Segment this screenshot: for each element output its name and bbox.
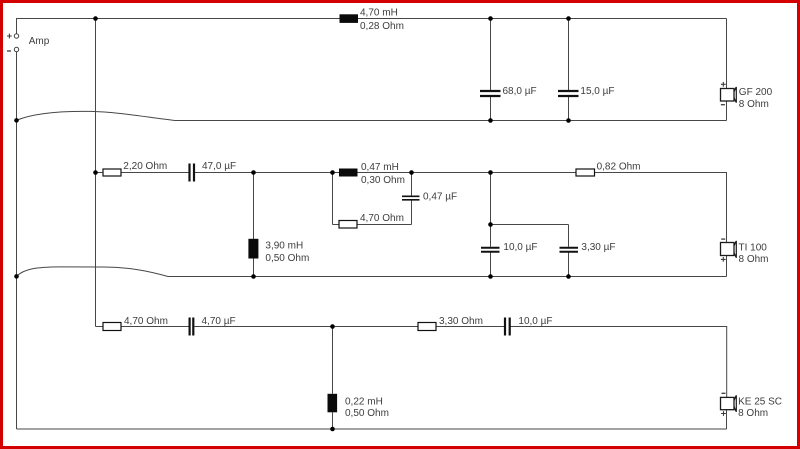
junction node top rail / bus	[93, 16, 98, 21]
svg-text:0,82 Ohm: 0,82 Ohm	[597, 162, 641, 173]
wire mid shunt caps vertical x=490 lower	[490, 253, 492, 277]
wire mid shunt caps vertical x=490 upper	[490, 173, 492, 247]
inductor 3,90 mH 0,50 Ohm (vertical)	[248, 239, 258, 259]
junction node shunt caps tie	[488, 222, 493, 227]
svg-text:4,70 mH: 4,70 mH	[360, 8, 398, 19]
capacitor 3,30 uF plates (mid shunt)	[560, 248, 579, 252]
svg-text:0,22 mH: 0,22 mH	[345, 396, 383, 407]
amp minus terminal	[14, 47, 18, 51]
minus sign at KE 25 SC	[722, 392, 726, 394]
svg-text:68,0 µF: 68,0 µF	[503, 86, 537, 97]
junction node woofer return / 15uF	[566, 118, 571, 123]
wire tweeter section rail	[96, 326, 189, 328]
wire tweeter rail after second cap	[511, 327, 727, 430]
wire mid return rail with hand-drawn bump	[17, 267, 727, 277]
capacitor 4,70 uF bars	[190, 318, 194, 336]
speaker GF 200	[721, 87, 737, 103]
minus sign at GF 200	[721, 104, 725, 106]
svg-text:0,47 µF: 0,47 µF	[423, 191, 457, 202]
wire mid rail segment 2	[194, 173, 727, 277]
wire mid shunt inductor branch x=253	[253, 173, 255, 277]
junction node woofer return / 68uF	[488, 118, 493, 123]
wire mid shunt cap2 vertical upper	[568, 225, 570, 247]
svg-text:3,30 Ohm: 3,30 Ohm	[439, 316, 483, 327]
junction node bottom rail / shunt inductor	[330, 427, 335, 432]
svg-text:2,20 Ohm: 2,20 Ohm	[123, 161, 167, 172]
wire top rail (Amp+ to woofer)	[17, 19, 727, 35]
wire main positive bus vertical x=95	[95, 19, 97, 327]
wire woofer shunt vertical x=490 upper	[490, 19, 492, 91]
junction node mid rail / shunt caps	[488, 170, 493, 175]
wire woofer return rail with hand-drawn bump	[17, 111, 727, 120]
junction node mid return / 10uF	[488, 274, 493, 279]
junction node woofer return / amp minus	[14, 118, 19, 123]
speaker KE 25 SC	[721, 395, 737, 412]
plus sign at amp	[7, 34, 12, 39]
svg-text:8 Ohm: 8 Ohm	[739, 99, 769, 110]
junction node A RC block left	[330, 170, 335, 175]
svg-text:15,0 µF: 15,0 µF	[580, 86, 614, 97]
svg-text:0,28 Ohm: 0,28 Ohm	[360, 21, 404, 32]
svg-text:Amp: Amp	[29, 36, 50, 47]
svg-text:0,30 Ohm: 0,30 Ohm	[361, 175, 405, 186]
junction node top rail / 15uF	[566, 16, 571, 21]
junction node mid rail / bus	[93, 170, 98, 175]
resistor 0,82 Ohm	[576, 169, 595, 176]
wire woofer shunt vertical x=568 lower	[568, 97, 570, 121]
wire RC branch right vertical upper	[411, 173, 413, 196]
capacitor 68,0 uF plates	[480, 91, 501, 96]
svg-text:10,0 µF: 10,0 µF	[518, 316, 552, 327]
svg-text:0,50 Ohm: 0,50 Ohm	[345, 408, 389, 419]
plus sign at GF 200	[721, 82, 726, 87]
junction node mid return / shunt inductor	[251, 274, 256, 279]
minus sign at TI 100	[721, 238, 725, 240]
capacitor 47,0 uF bars	[190, 164, 195, 182]
wire RC branch left vertical x=332	[332, 173, 334, 225]
inductor 4,70 mH 0,28 Ohm (woofer series)	[340, 14, 359, 23]
wire bottom-most rail	[17, 428, 727, 430]
amp plus terminal	[14, 34, 18, 38]
wire RC branch bottom horizontal	[333, 224, 412, 226]
svg-text:8 Ohm: 8 Ohm	[739, 254, 769, 265]
minus sign at amp	[7, 50, 11, 52]
capacitor 15,0 uF plates	[558, 91, 579, 96]
junction node tweeter rail / shunt inductor	[330, 324, 335, 329]
wire mid rail segment 1	[96, 172, 189, 174]
inductor 0,47 mH 0,30 Ohm	[339, 169, 358, 177]
svg-text:47,0 µF: 47,0 µF	[202, 161, 236, 172]
junction node mid return / amp minus	[14, 274, 19, 279]
plus sign at KE 25 SC	[721, 411, 726, 416]
inductor 0,22 mH 0,50 Ohm (vertical)	[328, 394, 338, 413]
svg-text:KE 25 SC: KE 25 SC	[738, 397, 782, 408]
svg-text:0,47 mH: 0,47 mH	[361, 162, 399, 173]
wire RC branch right vertical lower	[411, 201, 413, 225]
svg-text:8 Ohm: 8 Ohm	[738, 408, 768, 419]
wire tweeter shunt inductor branch x=332	[332, 327, 334, 394]
wire woofer shunt vertical x=490 lower	[490, 97, 492, 121]
wire tweeter rail after cap	[194, 326, 504, 328]
svg-text:TI 100: TI 100	[739, 242, 768, 253]
capacitor 10,0 uF bars (tweeter)	[505, 318, 510, 336]
resistor 4,70 Ohm (parallel branch)	[339, 221, 357, 229]
svg-text:GF 200: GF 200	[739, 87, 773, 98]
junction node mid return / 3,30uF	[566, 274, 571, 279]
wire tweeter inductor to bottom rail	[332, 412, 334, 429]
wire woofer shunt vertical x=568 upper	[568, 19, 570, 91]
svg-text:4,70 µF: 4,70 µF	[202, 316, 236, 327]
svg-text:10,0 µF: 10,0 µF	[503, 242, 537, 253]
svg-text:4,70 Ohm: 4,70 Ohm	[360, 213, 404, 224]
resistor 4,70 Ohm (tweeter series)	[103, 323, 121, 331]
svg-text:0,50 Ohm: 0,50 Ohm	[265, 253, 309, 264]
wire mid shunt caps tie bar	[491, 224, 569, 226]
resistor 2,20 Ohm	[103, 169, 121, 176]
wire mid shunt cap2 vertical lower	[568, 253, 570, 277]
junction node top rail / 68uF	[488, 16, 493, 21]
capacitor 10,0 uF plates (mid shunt)	[481, 248, 500, 252]
speaker TI 100	[721, 241, 737, 258]
junction node mid rail / shunt inductor	[251, 170, 256, 175]
resistor 3,30 Ohm	[418, 323, 436, 331]
wire amp minus vertical down left side	[16, 52, 18, 430]
svg-text:3,90 mH: 3,90 mH	[265, 241, 303, 252]
plus sign at TI 100	[721, 257, 726, 262]
wire woofer speaker drop	[726, 19, 728, 121]
capacitor 0,47 uF plates	[402, 196, 420, 200]
svg-text:3,30 µF: 3,30 µF	[581, 242, 615, 253]
junction node B RC block right	[409, 170, 414, 175]
svg-text:4,70 Ohm: 4,70 Ohm	[124, 316, 168, 327]
